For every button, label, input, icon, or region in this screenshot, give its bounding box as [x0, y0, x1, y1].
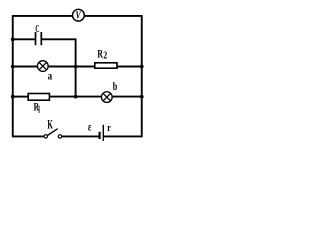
- svg-text:ε: ε: [88, 120, 91, 134]
- svg-text:C: C: [35, 23, 39, 35]
- svg-text:R: R: [97, 47, 103, 61]
- svg-text:1: 1: [38, 104, 40, 115]
- svg-text:b: b: [113, 79, 118, 93]
- svg-text:a: a: [48, 68, 53, 82]
- svg-text:K: K: [47, 118, 53, 132]
- svg-text:r: r: [107, 122, 111, 134]
- svg-text:2: 2: [103, 51, 107, 62]
